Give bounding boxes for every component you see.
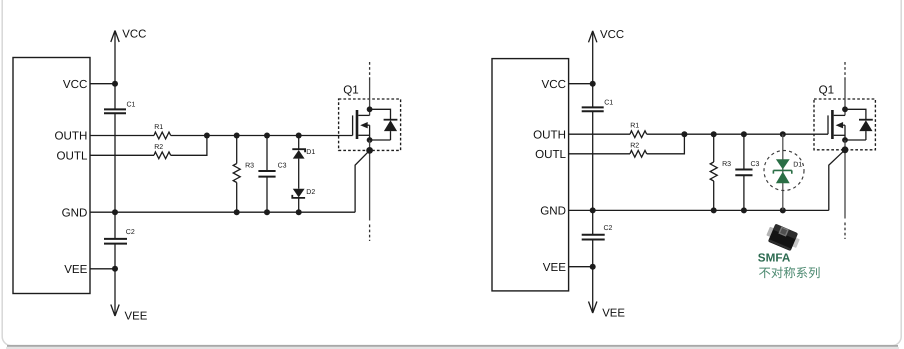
node source exit junction dot xyxy=(366,147,373,154)
wire OUTH down to C3 xyxy=(743,134,745,169)
mosfet Q1 channel bar xyxy=(831,110,834,139)
node C3 bottom junction dot xyxy=(264,209,270,215)
svg-text:VCC: VCC xyxy=(122,29,146,41)
svg-text:C1: C1 xyxy=(604,99,613,106)
wire GND bus riser xyxy=(355,150,370,212)
wire C3 to GND xyxy=(266,177,268,213)
wire source to body-diode anode xyxy=(370,139,391,141)
node GND junction dot xyxy=(590,207,596,213)
mosfet Q1 bulk arrow xyxy=(367,124,370,126)
svg-text:R2: R2 xyxy=(630,142,639,149)
power symbol VEE arrow xyxy=(111,305,119,317)
wire body-diode anode down xyxy=(865,131,867,140)
wire GND bus xyxy=(90,211,355,213)
wire OUTH down through TVS to GND xyxy=(782,134,784,210)
svg-text:C3: C3 xyxy=(278,162,287,169)
zener diode D1 (cathode up) xyxy=(292,149,305,152)
svg-text:OUTL: OUTL xyxy=(535,148,566,161)
wire VCC rail up xyxy=(114,32,116,109)
node R3 bottom junction dot xyxy=(234,209,240,215)
svg-text:R3: R3 xyxy=(722,161,731,168)
svg-text:VCC: VCC xyxy=(600,29,624,41)
wire GND to C2 xyxy=(592,210,594,234)
wire OUTH down to R3 xyxy=(236,136,238,164)
node R2/OUTH junction dot xyxy=(681,131,687,137)
node VCC junction dot xyxy=(112,81,118,87)
mosfet Q1 channel bar xyxy=(356,110,359,139)
node source junction dot xyxy=(842,137,848,143)
wire drain external (dashed continuation) xyxy=(844,62,846,80)
wire GND bus xyxy=(569,209,829,211)
capacitor C3 xyxy=(735,170,752,176)
node clamp top junction dot xyxy=(296,133,302,139)
svg-text:C2: C2 xyxy=(604,225,613,232)
svg-text:OUTH: OUTH xyxy=(533,128,566,141)
node VEE junction dot xyxy=(112,266,118,272)
mosfet Q1 gate bar xyxy=(827,115,829,134)
node GND junction dot xyxy=(112,209,118,215)
wire OUTH down to D1 xyxy=(298,136,300,150)
svg-text:C1: C1 xyxy=(127,101,136,108)
node clamp bottom junction dot xyxy=(296,209,302,215)
node C3 top junction dot xyxy=(264,133,270,139)
node R2/OUTH junction dot xyxy=(204,133,210,139)
svg-text:OUTH: OUTH xyxy=(55,130,88,143)
wire rail C1 to GND xyxy=(114,113,116,212)
svg-text:VEE: VEE xyxy=(125,311,148,323)
node drain junction dot xyxy=(842,106,848,112)
wire bulk to source xyxy=(844,125,846,140)
gate driver IC box U2 xyxy=(492,59,569,291)
wire source external (dashed continuation) xyxy=(844,223,846,240)
gate driver IC box U1 xyxy=(13,58,90,294)
wire OUTH down to R3 xyxy=(713,134,715,162)
wire source to body-diode anode xyxy=(845,139,866,141)
wire drain lead xyxy=(844,80,846,115)
node source exit junction dot xyxy=(842,146,849,153)
resistor R2 xyxy=(154,152,171,159)
wire drain lead xyxy=(369,80,371,115)
wire OUTL to R2 xyxy=(90,154,154,156)
svg-text:Q1: Q1 xyxy=(819,84,834,97)
wire R3 to GND xyxy=(713,181,715,210)
label 不对称系列 (asymmetric series) xyxy=(759,267,820,278)
wire VEE pin stub xyxy=(90,268,115,270)
wire R2 up to OUTH node xyxy=(647,134,685,154)
wire C2 to VEE pin xyxy=(592,240,594,267)
capacitor C2 xyxy=(104,239,127,244)
node drain junction dot xyxy=(367,106,373,112)
wire VCC pin to rail xyxy=(569,83,593,85)
svg-text:VEE: VEE xyxy=(602,308,625,320)
wire C3 to GND xyxy=(743,175,745,210)
svg-text:D1: D1 xyxy=(793,162,802,169)
mosfet Q1 bottom (source) stub xyxy=(358,134,369,136)
svg-text:VEE: VEE xyxy=(64,263,87,276)
highlight circle around D1 (dashed) xyxy=(764,151,804,191)
wire OUTH down to C3 xyxy=(266,136,268,172)
wire VEE rail down xyxy=(114,269,116,315)
TVS diode D1 (bidirectional, SMFA) xyxy=(773,159,791,183)
svg-text:R1: R1 xyxy=(154,124,163,131)
svg-text:OUTL: OUTL xyxy=(56,149,87,162)
mosfet Q1 bulk arrow xyxy=(842,124,845,126)
capacitor C1 xyxy=(104,109,126,113)
dashed outline box of Q1 xyxy=(814,99,875,150)
wire D1 anode to D2 anode xyxy=(298,159,300,189)
node C3 top junction dot xyxy=(741,131,747,137)
svg-text:VEE: VEE xyxy=(543,261,566,274)
body diode of Q1 xyxy=(859,119,873,121)
wire GND to C2 xyxy=(114,212,116,239)
svg-text:Q1: Q1 xyxy=(343,84,358,97)
wire OUTH R1 to gate xyxy=(647,133,828,135)
svg-text:C2: C2 xyxy=(126,229,135,236)
node R3 bottom junction dot xyxy=(711,207,717,213)
body diode of Q1 xyxy=(384,119,398,121)
node clamp bottom junction dot xyxy=(780,207,786,213)
svg-text:C3: C3 xyxy=(751,161,760,168)
wire source down (to load) xyxy=(369,140,371,221)
wire drain to body-diode cathode xyxy=(845,109,866,119)
node VEE junction dot xyxy=(590,264,596,270)
svg-text:VCC: VCC xyxy=(542,78,566,91)
wire source external (dashed continuation) xyxy=(369,225,371,242)
wire C2 to VEE pin xyxy=(114,244,116,269)
capacitor C1 xyxy=(582,107,604,111)
wire body-diode anode down xyxy=(390,131,392,140)
resistor R2 xyxy=(630,150,647,157)
wire drain to body-diode cathode xyxy=(370,109,391,119)
power symbol VCC arrow xyxy=(111,31,119,43)
wire VCC pin to rail xyxy=(90,83,115,85)
mosfet Q1 bottom (source) stub xyxy=(834,134,845,136)
node R3 top junction dot xyxy=(234,133,240,139)
svg-text:R3: R3 xyxy=(245,162,254,169)
wire bulk to source xyxy=(369,125,371,140)
resistor R1 xyxy=(154,132,171,139)
wire D2 cathode to GND xyxy=(298,198,300,212)
wire OUTH R1 to gate xyxy=(171,135,353,137)
wire source down (to load) xyxy=(844,140,846,219)
wire rail C1 to GND xyxy=(592,111,594,210)
zener diode D2 (cathode down) xyxy=(293,189,305,198)
svg-text:D1: D1 xyxy=(306,149,315,156)
svg-text:D2: D2 xyxy=(306,189,315,196)
wire drain external (dashed continuation) xyxy=(369,62,371,80)
resistor R1 xyxy=(630,131,647,138)
wire VEE pin stub xyxy=(569,266,593,268)
svg-text:R2: R2 xyxy=(154,144,163,151)
mosfet Q1 gate bar xyxy=(352,115,354,135)
svg-text:GND: GND xyxy=(62,206,88,219)
node R3 top junction dot xyxy=(711,131,717,137)
wire VCC rail up xyxy=(592,32,594,107)
node VCC junction dot xyxy=(590,81,596,87)
svg-text:R1: R1 xyxy=(630,123,639,130)
node C3 bottom junction dot xyxy=(741,207,747,213)
mosfet Q1 top (drain) stub xyxy=(834,114,845,116)
wire OUTH to R1 xyxy=(90,135,154,137)
wire OUTL to R2 xyxy=(569,153,630,155)
wire R2 up to OUTH node xyxy=(171,136,207,156)
SMFA package photo icon xyxy=(764,222,801,253)
dashed outline box of Q1 xyxy=(339,99,401,150)
svg-text:VCC: VCC xyxy=(63,78,87,91)
wire VEE rail down xyxy=(592,267,594,312)
node source junction dot xyxy=(367,137,373,143)
wire R3 to GND xyxy=(236,183,238,213)
node clamp top junction dot xyxy=(780,131,786,137)
wire OUTH to R1 xyxy=(569,133,630,135)
capacitor C2 xyxy=(582,235,605,240)
capacitor C3 xyxy=(258,171,275,177)
svg-text:SMFA: SMFA xyxy=(758,252,791,265)
svg-text:GND: GND xyxy=(540,205,566,218)
power symbol VCC arrow xyxy=(589,31,597,43)
wire GND bus riser xyxy=(829,150,845,211)
resistor R3 xyxy=(233,164,240,183)
resistor R3 xyxy=(710,162,717,181)
mosfet Q1 top (drain) stub xyxy=(358,114,369,116)
power symbol VEE arrow xyxy=(589,302,597,314)
